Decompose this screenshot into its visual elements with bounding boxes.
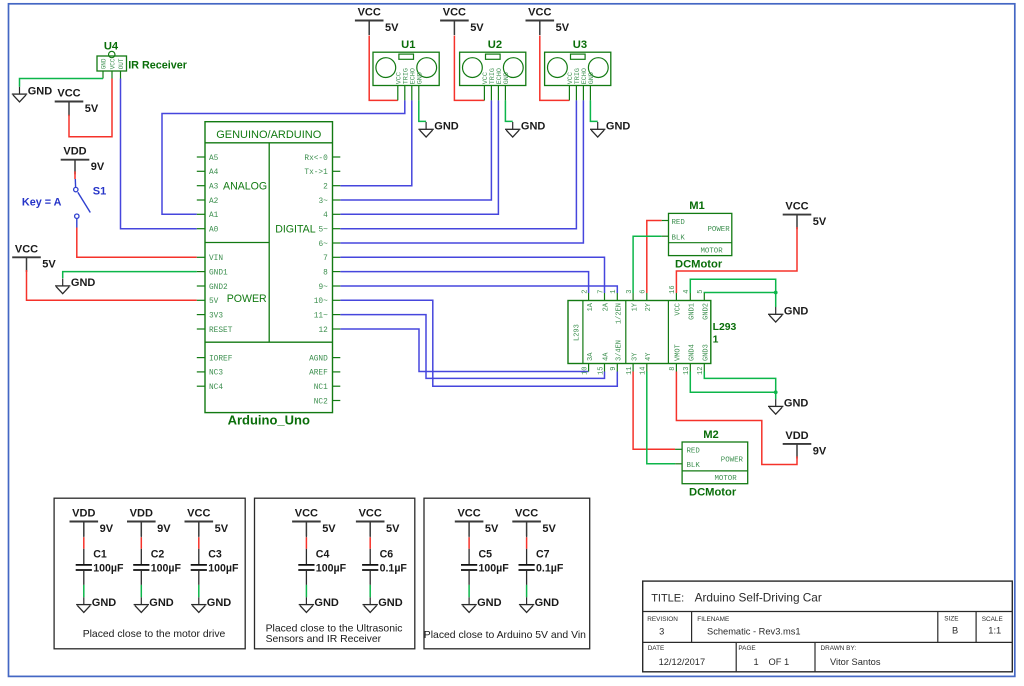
svg-text:5~: 5~	[318, 227, 328, 235]
svg-text:VCC: VCC	[110, 58, 117, 69]
svg-text:GND: GND	[71, 277, 96, 289]
svg-text:RED: RED	[687, 448, 701, 456]
svg-text:5V: 5V	[542, 523, 556, 535]
svg-text:1: 1	[754, 657, 759, 667]
svg-text:GENUINO/ARDUINO: GENUINO/ARDUINO	[216, 129, 322, 141]
svg-text:OUT: OUT	[118, 58, 125, 69]
svg-text:GND: GND	[28, 85, 53, 97]
svg-text:VCC: VCC	[528, 7, 551, 19]
svg-text:GND: GND	[149, 597, 174, 609]
svg-text:Arduino Self-Driving Car: Arduino Self-Driving Car	[695, 591, 822, 605]
svg-text:5V: 5V	[385, 22, 399, 34]
svg-text:9V: 9V	[91, 161, 105, 173]
svg-text:2: 2	[581, 290, 589, 294]
svg-text:11: 11	[626, 367, 634, 375]
svg-text:8: 8	[669, 367, 677, 371]
svg-text:POWER: POWER	[227, 293, 267, 305]
svg-text:Key = A: Key = A	[22, 196, 62, 208]
svg-text:DCMotor: DCMotor	[689, 487, 737, 499]
svg-text:Vitor Santos: Vitor Santos	[830, 657, 881, 667]
svg-text:GND: GND	[101, 58, 108, 69]
svg-text:TITLE:: TITLE:	[651, 592, 684, 604]
svg-text:GND3: GND3	[703, 344, 711, 361]
svg-text:A2: A2	[209, 198, 219, 206]
svg-text:2A: 2A	[603, 302, 611, 311]
svg-text:1A: 1A	[587, 302, 595, 311]
svg-text:3A: 3A	[587, 352, 595, 361]
svg-text:VDD: VDD	[785, 430, 808, 442]
svg-text:REVISION: REVISION	[647, 616, 678, 623]
svg-text:16: 16	[669, 285, 677, 293]
svg-text:NC1: NC1	[314, 384, 328, 392]
svg-text:Placed close to the Ultrasonic: Placed close to the Ultrasonic	[266, 623, 403, 634]
svg-text:GND1: GND1	[209, 269, 228, 277]
svg-text:100µF: 100µF	[316, 563, 347, 575]
svg-text:5V: 5V	[386, 523, 400, 535]
svg-text:VCC: VCC	[295, 508, 318, 520]
svg-text:GND: GND	[378, 597, 403, 609]
svg-text:A0: A0	[209, 227, 219, 235]
svg-text:IR Receiver: IR Receiver	[128, 60, 188, 72]
svg-text:3~: 3~	[318, 198, 328, 206]
svg-text:5V: 5V	[470, 22, 484, 34]
svg-text:Placed close to the motor driv: Placed close to the motor drive	[83, 629, 226, 640]
svg-text:7: 7	[597, 290, 605, 294]
svg-text:VCC: VCC	[443, 7, 466, 19]
svg-text:OF 1: OF 1	[769, 657, 790, 667]
svg-text:5V: 5V	[215, 523, 229, 535]
svg-text:L293: L293	[713, 322, 737, 333]
svg-text:AGND: AGND	[309, 355, 328, 363]
svg-text:5V: 5V	[813, 216, 827, 228]
svg-text:U1: U1	[401, 39, 415, 51]
svg-text:100µF: 100µF	[93, 563, 124, 575]
svg-text:M1: M1	[689, 200, 705, 212]
svg-text:A3: A3	[209, 184, 219, 192]
svg-text:1: 1	[713, 335, 719, 346]
svg-text:100µF: 100µF	[151, 563, 182, 575]
svg-text:VDD: VDD	[63, 146, 86, 158]
svg-text:VCC: VCC	[187, 508, 210, 520]
svg-text:BLK: BLK	[687, 462, 701, 470]
svg-text:GND: GND	[207, 597, 232, 609]
svg-text:C2: C2	[151, 548, 165, 560]
svg-text:9: 9	[610, 367, 618, 371]
svg-text:9~: 9~	[318, 284, 328, 292]
svg-text:FILENAME: FILENAME	[697, 616, 729, 623]
svg-text:POWER: POWER	[708, 226, 731, 234]
svg-text:NC4: NC4	[209, 384, 223, 392]
svg-text:1: 1	[610, 290, 618, 294]
svg-text:Arduino_Uno: Arduino_Uno	[228, 413, 310, 428]
svg-text:Tx->1: Tx->1	[304, 169, 328, 177]
svg-text:12/12/2017: 12/12/2017	[659, 657, 706, 667]
svg-text:VCC: VCC	[358, 7, 381, 19]
svg-text:RESET: RESET	[209, 327, 233, 335]
svg-text:DCMotor: DCMotor	[675, 258, 723, 270]
svg-text:VCC: VCC	[515, 508, 538, 520]
svg-text:VDD: VDD	[130, 508, 153, 520]
svg-text:1Y: 1Y	[631, 302, 639, 311]
svg-text:VCC: VCC	[457, 508, 480, 520]
svg-text:100µF: 100µF	[479, 563, 510, 575]
svg-text:BLK: BLK	[672, 235, 686, 243]
svg-text:GND4: GND4	[689, 344, 697, 361]
svg-text:0.1µF: 0.1µF	[380, 563, 408, 575]
svg-text:VCC: VCC	[785, 201, 808, 213]
svg-text:3/4EN: 3/4EN	[616, 340, 624, 361]
svg-text:GND: GND	[588, 72, 596, 84]
svg-text:M2: M2	[703, 429, 719, 441]
svg-text:DATE: DATE	[648, 645, 665, 652]
svg-text:1/2EN: 1/2EN	[616, 303, 624, 324]
svg-text:GND: GND	[92, 597, 117, 609]
svg-text:GND1: GND1	[689, 303, 697, 320]
svg-text:C4: C4	[316, 548, 330, 560]
svg-text:C1: C1	[93, 548, 107, 560]
svg-text:5V: 5V	[85, 103, 99, 115]
svg-text:C3: C3	[208, 548, 222, 560]
svg-text:6: 6	[640, 290, 648, 294]
svg-text:3: 3	[626, 290, 634, 294]
svg-text:A5: A5	[209, 155, 219, 163]
svg-text:DIGITAL: DIGITAL	[275, 224, 316, 236]
svg-text:L293: L293	[574, 324, 582, 341]
svg-text:A4: A4	[209, 169, 219, 177]
svg-text:NC2: NC2	[314, 398, 328, 406]
svg-text:VDD: VDD	[72, 508, 95, 520]
svg-text:GND: GND	[606, 121, 631, 133]
svg-text:Rx<-0: Rx<-0	[304, 155, 328, 163]
svg-text:AREF: AREF	[309, 370, 328, 378]
svg-text:GND2: GND2	[209, 284, 228, 292]
svg-text:9V: 9V	[813, 445, 827, 457]
svg-text:GND: GND	[784, 398, 809, 410]
svg-text:5V: 5V	[322, 523, 336, 535]
svg-text:4: 4	[683, 290, 691, 294]
svg-text:U3: U3	[573, 39, 587, 51]
svg-text:GND: GND	[434, 121, 459, 133]
svg-text:Placed close to Arduino 5V and: Placed close to Arduino 5V and Vin	[424, 630, 586, 641]
svg-text:U4: U4	[104, 41, 119, 53]
svg-text:10~: 10~	[314, 298, 328, 306]
svg-text:VMOT: VMOT	[675, 344, 683, 361]
svg-text:Schematic - Rev3.ms1: Schematic - Rev3.ms1	[707, 626, 801, 636]
svg-text:12: 12	[318, 327, 328, 335]
svg-text:3V3: 3V3	[209, 312, 223, 320]
svg-text:VIN: VIN	[209, 255, 223, 263]
svg-text:15: 15	[597, 367, 605, 375]
svg-text:1:1: 1:1	[988, 626, 1001, 636]
svg-text:4: 4	[323, 212, 328, 220]
svg-text:3Y: 3Y	[631, 352, 639, 361]
svg-text:GND: GND	[314, 597, 339, 609]
svg-text:14: 14	[640, 367, 648, 375]
svg-text:VCC: VCC	[57, 88, 80, 100]
svg-text:GND: GND	[784, 306, 809, 318]
svg-text:C6: C6	[380, 548, 394, 560]
svg-text:SCALE: SCALE	[982, 616, 1003, 623]
svg-text:6~: 6~	[318, 241, 328, 249]
svg-text:12: 12	[697, 367, 705, 375]
svg-text:GND: GND	[417, 72, 425, 84]
svg-text:2: 2	[323, 184, 328, 192]
svg-text:2Y: 2Y	[645, 302, 653, 311]
svg-text:9V: 9V	[157, 523, 171, 535]
svg-text:7: 7	[323, 255, 328, 263]
svg-text:11~: 11~	[314, 312, 328, 320]
svg-text:MOTOR: MOTOR	[701, 247, 724, 255]
svg-text:C7: C7	[536, 548, 550, 560]
svg-text:MOTOR: MOTOR	[715, 475, 738, 483]
svg-text:VCC: VCC	[15, 243, 38, 255]
svg-text:IOREF: IOREF	[209, 355, 233, 363]
svg-text:DRAWN BY:: DRAWN BY:	[821, 645, 857, 652]
svg-text:GND: GND	[535, 597, 560, 609]
svg-text:NC3: NC3	[209, 370, 223, 378]
svg-text:GND: GND	[477, 597, 502, 609]
svg-text:9V: 9V	[100, 523, 114, 535]
svg-text:10: 10	[581, 367, 589, 375]
svg-text:ANALOG: ANALOG	[223, 180, 267, 192]
svg-text:5V: 5V	[556, 22, 570, 34]
svg-text:GND2: GND2	[703, 303, 711, 320]
svg-text:4Y: 4Y	[645, 352, 653, 361]
svg-text:Sensors and IR Receiver: Sensors and IR Receiver	[266, 634, 382, 645]
svg-text:5V: 5V	[485, 523, 499, 535]
svg-text:5V: 5V	[42, 259, 56, 271]
svg-text:PAGE: PAGE	[738, 645, 755, 652]
svg-text:GND: GND	[521, 121, 546, 133]
svg-text:100µF: 100µF	[208, 563, 239, 575]
svg-text:SIZE: SIZE	[944, 616, 958, 623]
svg-text:3: 3	[659, 626, 664, 636]
svg-text:RED: RED	[672, 219, 686, 227]
svg-text:8: 8	[323, 269, 328, 277]
svg-text:POWER: POWER	[721, 457, 744, 465]
svg-text:0.1µF: 0.1µF	[536, 563, 564, 575]
svg-text:S1: S1	[93, 186, 106, 198]
svg-text:C5: C5	[479, 548, 493, 560]
svg-text:5V: 5V	[209, 298, 219, 306]
svg-text:GND: GND	[503, 72, 511, 84]
svg-text:VCC: VCC	[675, 303, 683, 316]
svg-text:A1: A1	[209, 212, 219, 220]
svg-text:4A: 4A	[603, 352, 611, 361]
svg-text:13: 13	[683, 367, 691, 375]
svg-text:5: 5	[697, 290, 705, 294]
svg-text:VCC: VCC	[359, 508, 382, 520]
svg-text:U2: U2	[488, 39, 502, 51]
svg-text:B: B	[952, 626, 958, 636]
